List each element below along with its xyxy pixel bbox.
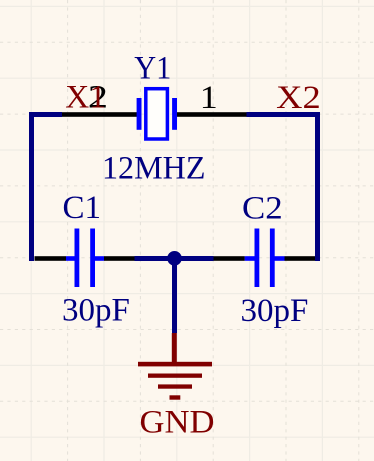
svg-text:30pF: 30pF xyxy=(241,293,309,329)
junction dot xyxy=(167,251,182,266)
ground stem xyxy=(172,333,177,363)
capacitor C2 xyxy=(245,229,285,288)
svg-text:X2: X2 xyxy=(276,80,321,116)
pin 2 line of C2 (black) xyxy=(285,256,316,261)
wire: junction to ground xyxy=(172,256,177,333)
svg-text:Y1: Y1 xyxy=(134,51,171,87)
svg-text:1: 1 xyxy=(200,80,218,116)
svg-text:X1: X1 xyxy=(65,79,106,115)
C1 left lead stub xyxy=(66,256,75,261)
C2 left plate xyxy=(255,229,260,288)
capacitor C1 xyxy=(66,229,104,288)
C1 left plate xyxy=(75,229,80,288)
ground bar 4 xyxy=(170,395,181,399)
crystal left electrode plate xyxy=(137,98,142,130)
ground bar 2 xyxy=(148,374,202,378)
pin 1 line of C2 (black) xyxy=(214,256,245,261)
wire: right vertical xyxy=(315,112,320,261)
wire: left vertical xyxy=(29,112,34,261)
ground bar 3 xyxy=(158,384,192,388)
pin 1 line of Y1 (black) xyxy=(177,112,247,117)
svg-text:GND: GND xyxy=(140,405,215,441)
C1 right lead stub xyxy=(95,256,105,261)
svg-text:12MHZ: 12MHZ xyxy=(102,151,206,187)
C1 right plate xyxy=(90,229,95,288)
ground xyxy=(138,333,212,400)
svg-text:C2: C2 xyxy=(242,191,283,227)
wire: top-left horizontal segment xyxy=(29,112,62,117)
svg-text:30pF: 30pF xyxy=(62,293,130,329)
C2 right lead stub xyxy=(275,256,285,261)
crystal right electrode plate xyxy=(172,98,177,130)
wire: top-right horizontal segment xyxy=(247,112,321,117)
C2 left lead stub xyxy=(245,256,255,261)
pin 2 line of Y1 (black) xyxy=(62,112,137,117)
svg-text:C1: C1 xyxy=(63,190,102,226)
ground bar 1 xyxy=(138,362,212,367)
crystal Y1 xyxy=(137,89,177,139)
wire: bottom middle segment xyxy=(135,256,214,261)
C2 right plate xyxy=(270,229,275,288)
crystal body rectangle xyxy=(146,89,168,139)
pin 2 line of C1 (black) xyxy=(104,256,135,261)
pin 1 line of C1 (black) xyxy=(35,256,67,261)
